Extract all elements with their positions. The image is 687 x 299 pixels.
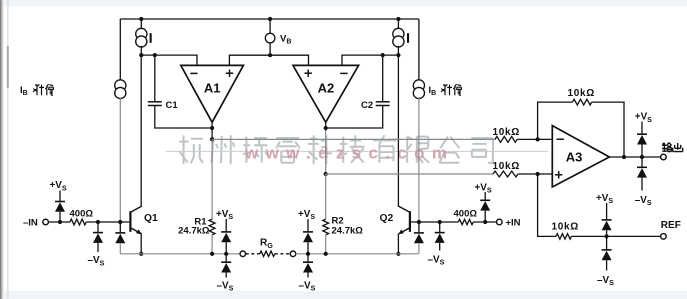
wire A2 output down upper: [325, 122, 327, 130]
svg-text:A2: A2: [318, 81, 335, 96]
label output chinese: [662, 143, 683, 152]
node rail-I2 junction: [396, 17, 400, 21]
watermark underline: [166, 150, 548, 152]
wire A3 ref branch: [538, 174, 556, 236]
diode clamp to +VS (right): [480, 200, 490, 210]
label I (right): [407, 33, 409, 43]
node I2 output junction: [396, 53, 400, 57]
wire rail clamp down lead (RG left): [225, 254, 227, 262]
wire RG dashed left: [246, 253, 260, 255]
svg-text:400Ω: 400Ω: [70, 209, 94, 220]
wire output clamp up lead: [641, 122, 643, 135]
node rail clamp right junction: [306, 252, 310, 256]
resistor 10k reference: [556, 234, 571, 239]
label I (left): [150, 33, 152, 43]
wire diode to -VS (RG left): [225, 273, 227, 278]
wire ref clamp down lead: [606, 236, 608, 250]
node Q2 emitter junction: [396, 252, 400, 256]
wire VB to A1 noninverting input: [229, 55, 270, 65]
node right rail-diode junction: [417, 220, 421, 224]
wire -VS clamp bottom lead (left): [97, 243, 99, 252]
terminal output: [661, 154, 667, 160]
label A1 minus: [190, 72, 197, 74]
wire -VS clamp bottom lead (right): [439, 243, 441, 251]
transistor Q1 emitter: [130, 228, 141, 234]
wire C1 bottom lead: [155, 106, 212, 128]
svg-text:10kΩ: 10kΩ: [552, 222, 580, 233]
node rail-I1 junction: [139, 17, 143, 21]
capacitor C1: [148, 101, 162, 103]
left edge gradient: [0, 0, 4, 299]
terminal -IN: [43, 219, 49, 225]
wire RG dashed right: [275, 253, 290, 255]
svg-text:Q2: Q2: [380, 213, 394, 224]
resistor R1: [209, 219, 215, 235]
node A2 output to A3 tap: [324, 172, 328, 176]
wire top supply rail: [120, 18, 419, 20]
node left rail-diode junction: [118, 220, 122, 224]
wire emitter rail left section: [120, 253, 243, 255]
wire VB top lead: [269, 19, 271, 34]
wire I2 bottom lead: [397, 46, 399, 55]
wire -IN to 400ohm: [48, 221, 70, 223]
wire A2 output to R2: [325, 174, 327, 219]
terminal REF: [661, 234, 667, 240]
label A1 plus: [226, 72, 233, 74]
transistor Q2 collector: [399, 206, 410, 212]
label buchang chinese (right): [441, 84, 461, 95]
wire A1 output down upper: [211, 122, 213, 141]
transistor Q1 collector: [130, 206, 141, 212]
current source I (left) I1: [136, 28, 147, 47]
wire R2 to RG rail: [325, 235, 327, 254]
left scrollbar track: [7, 0, 9, 299]
op-amp A3: [552, 126, 609, 187]
wire rail diode top lead (left): [119, 222, 121, 233]
resistor 400ohm (right): [458, 219, 473, 224]
diode RG-right to +VS: [303, 232, 313, 242]
wire A1 output to A3 inverting: [212, 138, 495, 140]
wire A1 output to R1: [211, 139, 213, 219]
wire C2 bottom lead: [326, 106, 383, 128]
wire I2 top lead: [397, 19, 399, 30]
wire diode to -VS (RG right): [307, 273, 309, 278]
resistor RG: [260, 251, 275, 256]
svg-text:A1: A1: [204, 81, 221, 96]
wire A3 output: [609, 156, 660, 158]
node A1 output to A3 tap: [210, 137, 214, 141]
diode clamp to -VS (right): [435, 233, 445, 243]
watermark gray company text: [179, 135, 493, 164]
wire I1 node to A1 inverting input: [141, 55, 197, 65]
wire rail diode top lead (right): [418, 222, 420, 233]
top light band: [0, 0, 687, 7]
svg-text:10kΩ: 10kΩ: [568, 88, 596, 99]
current source IB compensation (left): [115, 80, 126, 99]
wire C1 top lead: [154, 55, 156, 101]
svg-text:10kΩ: 10kΩ: [493, 161, 521, 172]
label A2 plus: [305, 72, 312, 74]
resistor 400ohm (left): [70, 219, 86, 225]
svg-text:REF: REF: [661, 220, 681, 231]
wire 400ohm to Q1 base: [86, 221, 129, 223]
transistor Q2 base bar: [409, 211, 411, 232]
current source I (right) I2: [393, 28, 404, 47]
wire A2 output to A3 noninverting: [326, 173, 493, 175]
svg-text:C2: C2: [361, 100, 373, 111]
wire feedback: [538, 102, 573, 139]
node VB output junction: [268, 53, 272, 57]
transistor Q1 base bar: [129, 211, 131, 232]
svg-text:C1: C1: [166, 100, 179, 111]
op-amp A2: [293, 65, 359, 122]
wire diode to rail (RG right): [307, 242, 309, 254]
wire C2 top lead: [382, 55, 384, 101]
node rail R2 junction: [324, 252, 328, 256]
wire rail clamp up lead (RG right): [307, 219, 309, 232]
node left -VS clamp junction: [96, 220, 100, 224]
diode output to -VS: [637, 167, 647, 177]
wire IB left to input node: [119, 97, 121, 222]
node -IN clamp junction: [58, 220, 62, 224]
wire -VS clamp top lead (right): [439, 222, 441, 233]
wire rail diode bottom lead (right): [418, 243, 420, 254]
wire diode to rail (RG left): [225, 242, 227, 254]
wire clamp diode to node (right): [484, 211, 486, 222]
diode RG-right to -VS: [303, 262, 313, 272]
node Q1 emitter junction: [139, 252, 143, 256]
node A3 feedback junction: [536, 137, 540, 141]
wire 10k to A3 noninverting: [518, 173, 552, 175]
wire left drop from rail: [119, 19, 121, 80]
wire emitter rail right section: [296, 253, 419, 255]
resistor 10k feedback: [573, 99, 592, 105]
svg-text:10kΩ: 10kΩ: [493, 127, 521, 138]
diode reference to +VS: [602, 220, 612, 230]
wire right drop from rail: [418, 19, 420, 80]
svg-text:A3: A3: [566, 150, 583, 165]
node rail clamp left junction: [224, 252, 228, 256]
capacitor C2: [376, 101, 390, 103]
wire R1 to RG rail: [211, 235, 213, 254]
wire output clamp down lead: [641, 157, 643, 167]
node I1 output junction: [139, 53, 143, 57]
wire 400ohm to +IN: [473, 221, 496, 223]
svg-text:24.7kΩ: 24.7kΩ: [178, 226, 210, 237]
node rail-VB junction: [268, 17, 272, 21]
diode clamp to +VS (left): [55, 202, 65, 212]
node rail R1 junction: [210, 252, 214, 256]
resistor 10k A3 inverting: [495, 137, 517, 143]
node A1 output junction: [210, 126, 214, 130]
label buchang chinese (left): [33, 84, 53, 95]
wire rail diode bottom lead (left): [119, 243, 121, 254]
label A3 minus: [557, 138, 564, 140]
node A2 output junction: [324, 126, 328, 130]
terminal RG right: [290, 251, 296, 257]
svg-text:400Ω: 400Ω: [454, 209, 478, 220]
node feedback output junction: [622, 155, 626, 159]
wire IB right to input node: [418, 97, 420, 222]
node output clamp junction: [640, 155, 644, 159]
bottom light band: [0, 291, 687, 299]
left scrollbar thumb: [7, 46, 9, 88]
node C1 top junction: [153, 53, 157, 57]
wire Q2 base to 400ohm: [411, 221, 459, 223]
svg-text:+IN: +IN: [506, 218, 521, 229]
diode output to +VS: [637, 134, 647, 144]
wire clamp diode to node (left): [59, 212, 61, 222]
node ref clamp junction: [605, 234, 609, 238]
svg-text:–IN: –IN: [23, 218, 38, 229]
wire rail clamp up lead (RG left): [225, 219, 227, 232]
label A3 plus: [555, 174, 562, 176]
wire output diode to node: [641, 145, 643, 158]
svg-text:24.7kΩ: 24.7kΩ: [332, 226, 364, 237]
wire ref clamp up lead: [606, 203, 608, 220]
terminal +IN: [497, 219, 503, 225]
diode RG-left to -VS: [221, 262, 231, 272]
resistor 10k A3 noninverting: [493, 171, 518, 177]
wire VB to A2 noninverting input: [270, 55, 308, 65]
wire clamp diode up lead (left +VS): [59, 191, 61, 202]
node A3 reference tap junction: [536, 172, 540, 176]
wire output diode to -VS: [641, 178, 643, 191]
svg-text:Q1: Q1: [144, 213, 158, 224]
wire 10k to A3 inverting: [517, 138, 552, 140]
resistor R2: [323, 219, 329, 235]
diode base-emitter clamp (left): [115, 233, 125, 243]
wire I1 top lead: [140, 19, 142, 30]
node right -VS clamp junction: [438, 220, 442, 224]
wire VB bottom lead: [269, 43, 271, 56]
diode reference to -VS: [602, 250, 612, 260]
wire I1 bottom lead: [140, 46, 142, 55]
label A2 minus: [340, 72, 347, 74]
wire ref diode to node: [606, 230, 608, 236]
op-amp A1: [181, 65, 244, 122]
wire 10k ref to REF terminal: [571, 235, 660, 237]
wire ref diode to -VS: [606, 260, 608, 270]
terminal RG left: [240, 251, 246, 257]
wire -VS clamp top lead (left): [97, 222, 99, 233]
diode base-emitter clamp (right): [414, 233, 424, 243]
diode clamp to -VS (left): [93, 233, 103, 243]
node +IN clamp junction: [483, 220, 487, 224]
wire rail clamp down lead (RG right): [307, 254, 309, 262]
wire A2 inverting input to I2 node: [342, 55, 398, 65]
diode RG-left to +VS: [221, 232, 231, 242]
node C2 top junction: [381, 53, 385, 57]
transistor Q2 emitter: [399, 228, 410, 234]
wire clamp diode up lead (right +VS): [484, 192, 486, 200]
voltage source VB: [265, 33, 275, 43]
current source IB compensation (right): [413, 80, 424, 99]
